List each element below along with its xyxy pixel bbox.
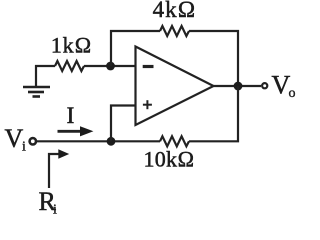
svg-text:4kΩ: 4kΩ [153,0,197,22]
svg-text:V: V [5,124,24,153]
svg-text:o: o [289,86,296,101]
terminal Vo open circle [262,83,267,88]
resistor R3 10k [160,136,189,146]
svg-text:i: i [53,203,57,218]
resistor R1 1k [55,61,84,71]
wire R3 to output riser [189,86,238,141]
non-inverting input '+' [143,100,152,109]
terminal Vi open circle [30,138,36,144]
resistor R2 4k feedback [160,26,189,36]
inverting input '-' [143,65,154,68]
svg-text:I: I [67,103,75,128]
svg-text:1kΩ: 1kΩ [51,33,92,58]
node C non-inverting input node [107,137,116,146]
node B output node [234,82,243,91]
current arrow I [58,126,94,136]
wire riser node C up to plus input [111,106,136,142]
node A inverting input node [106,62,115,71]
arrow Ri input-resistance pointer [49,149,69,188]
wire R1 to op-amp inverting input [84,65,136,67]
op-amp U1 [136,47,214,126]
wire riser node A up to feedback [111,31,160,66]
svg-text:i: i [22,140,26,155]
wire ground to R1 [35,65,55,67]
wire Vi to node C [37,140,161,142]
wire op-amp output [214,85,262,87]
ground [23,65,50,97]
svg-text:10kΩ: 10kΩ [143,147,194,172]
wire R2 to output riser [189,31,238,86]
